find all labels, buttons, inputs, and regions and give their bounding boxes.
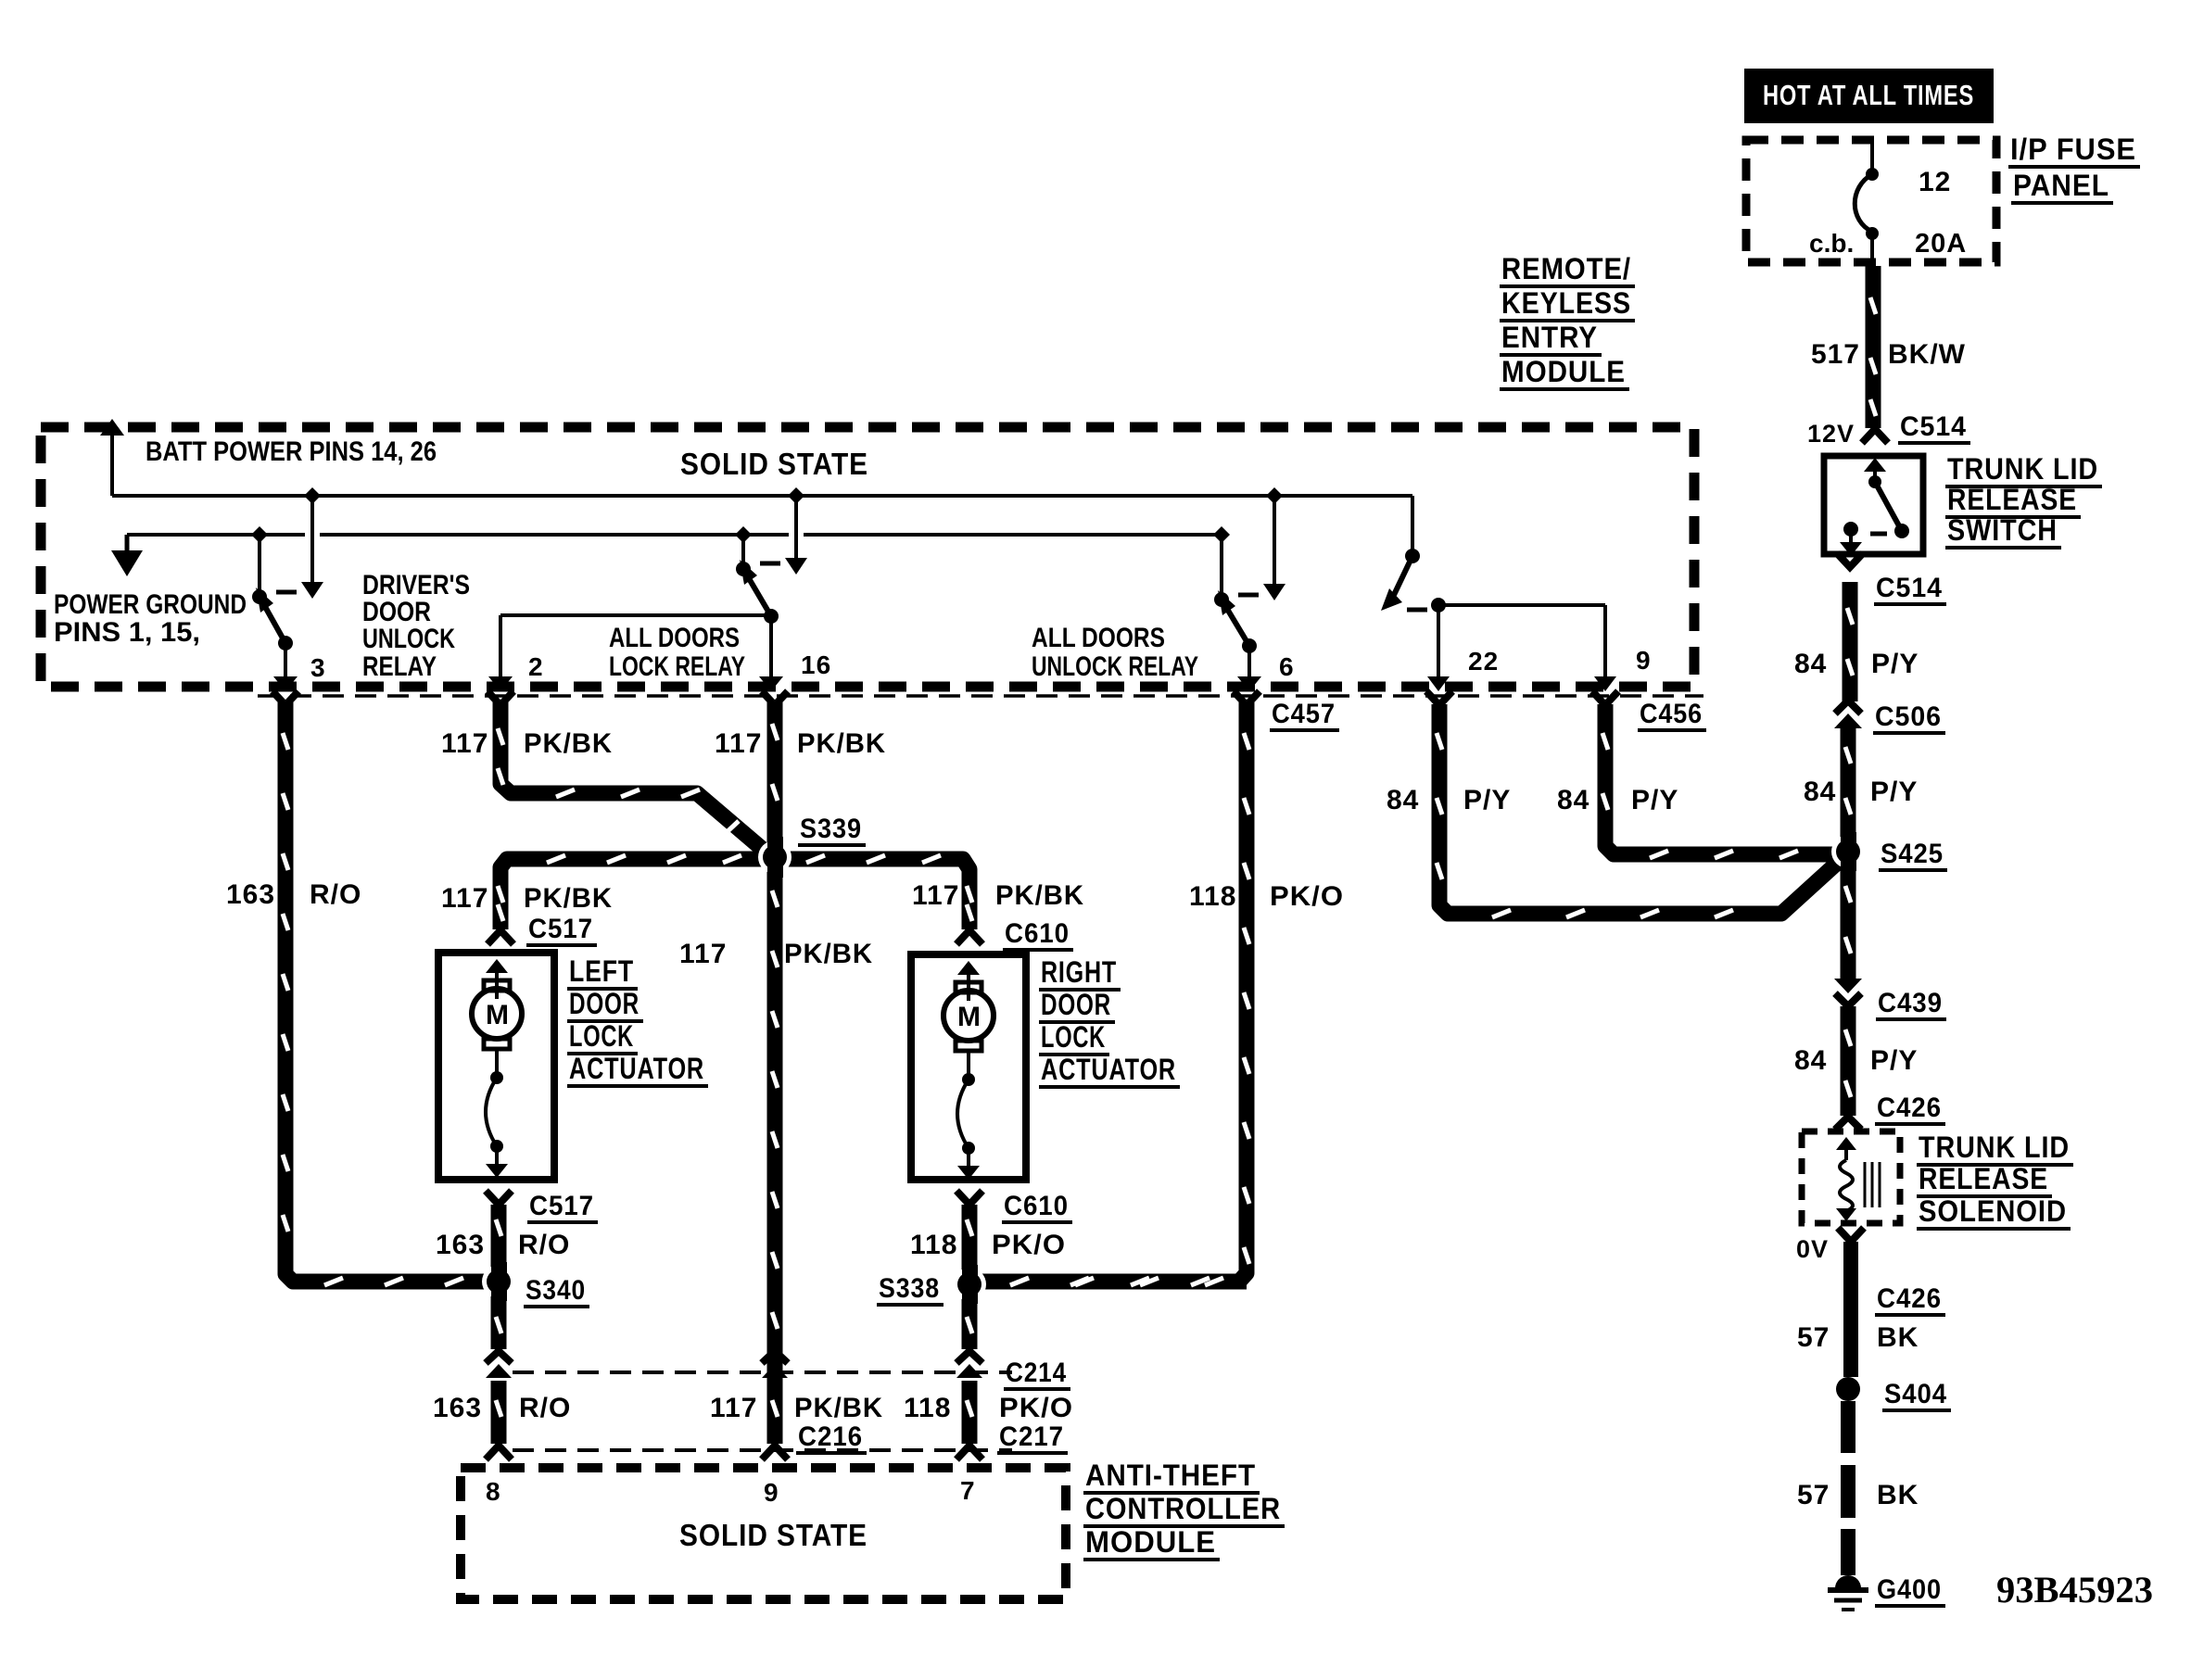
svg-text:117: 117 <box>715 728 762 759</box>
relay all-doors-lock: pivot dot <box>736 562 751 576</box>
label BK (1) <box>1877 1322 1919 1353</box>
wire 163 R/O from C517 to S340 <box>491 1205 507 1273</box>
label 118 (pin6 wire) <box>1189 881 1236 912</box>
svg-text:M: M <box>486 1000 509 1030</box>
pin 9 label <box>1636 646 1652 675</box>
svg-text:MODULE: MODULE <box>1085 1525 1216 1559</box>
svg-text:PK/BK: PK/BK <box>797 728 886 759</box>
wire pin 2 drop + arrow <box>488 615 513 691</box>
label S340 <box>524 1275 589 1307</box>
svg-text:M: M <box>957 1002 981 1032</box>
label CONTROLLER <box>1083 1492 1285 1526</box>
wire pin 9 drop + arrow <box>1594 605 1616 691</box>
label PK/BK (pin9 bottom) <box>794 1393 883 1423</box>
splice S425 <box>1831 832 1865 871</box>
label SWITCH <box>1945 513 2061 548</box>
wire contact to pin 22 arrow <box>1427 605 1450 691</box>
svg-text:C216: C216 <box>798 1421 863 1452</box>
label SOLID STATE (anti-theft) <box>679 1518 868 1552</box>
svg-text:LOCK: LOCK <box>1041 1020 1106 1054</box>
svg-text:SOLID STATE: SOLID STATE <box>679 1518 868 1552</box>
trunk switch: arm <box>1875 482 1902 531</box>
fuse element (circuit breaker arc) <box>1855 174 1872 232</box>
label 118 (S338 wire) <box>910 1230 957 1260</box>
label 163 (pin8 wire) <box>433 1393 482 1423</box>
label 117 (C610 wire) <box>912 880 959 911</box>
switch trunk-output: alternate-throw dash <box>1407 608 1427 613</box>
label RELAY (relay) <box>362 651 437 682</box>
label C217 <box>997 1421 1068 1453</box>
label DOOR (relay) <box>362 597 431 627</box>
svg-text:PK/O: PK/O <box>1270 881 1344 912</box>
label 117 (pin16 wire) <box>715 728 762 759</box>
svg-text:BK: BK <box>1877 1480 1919 1510</box>
label TRUNK LID (solenoid) <box>1917 1131 2073 1165</box>
svg-text:UNLOCK: UNLOCK <box>362 624 455 654</box>
label R/O (pin3 wire) <box>310 879 361 910</box>
relay driver-door-unlock: contact stub from line B <box>258 535 261 594</box>
svg-text:3: 3 <box>310 653 326 682</box>
wire end flare pin 8 <box>486 1446 512 1459</box>
label PK/BK (C610 wire) <box>995 880 1084 911</box>
svg-text:118: 118 <box>904 1393 951 1423</box>
wire end flare pin 9 bottom <box>762 1446 788 1459</box>
svg-text:c.b.: c.b. <box>1809 229 1854 258</box>
label RELEASE (switch) <box>1945 483 2081 517</box>
svg-text:117: 117 <box>441 883 488 914</box>
wire power ground feed (line B) segment 1 <box>127 533 305 537</box>
svg-text:PK/O: PK/O <box>999 1393 1073 1423</box>
svg-text:C426: C426 <box>1877 1093 1942 1123</box>
label PANEL <box>2011 169 2113 203</box>
hatch marks (wire color stripes) <box>283 297 1876 1417</box>
svg-text:PK/BK: PK/BK <box>794 1393 883 1423</box>
junction dot line B x1318 <box>1213 526 1230 543</box>
connector C439 <box>1834 979 1862 1006</box>
svg-text:RELEASE: RELEASE <box>1919 1162 2048 1195</box>
svg-text:517: 517 <box>1811 339 1860 370</box>
relay all-doors-unlock: alternate-throw dash <box>1238 593 1259 598</box>
fuse panel box I/P FUSE PANEL (dashed border) <box>1746 140 1996 262</box>
svg-text:57: 57 <box>1797 1480 1830 1510</box>
wire batt power arrow up <box>100 419 124 496</box>
label DOOR (left act) <box>567 987 643 1021</box>
right actuator motor symbol <box>944 961 994 1180</box>
label PK/BK (C517 wire) <box>524 883 613 914</box>
label 84 (pin9 wire) <box>1557 785 1589 815</box>
wire power ground corner + arrow down <box>111 535 143 576</box>
label PK/O (pin7 wire) <box>999 1393 1073 1423</box>
switch trunk-output: arm <box>1394 556 1412 595</box>
label 57 (2) <box>1797 1480 1830 1510</box>
label RELEASE (solenoid) <box>1917 1162 2052 1196</box>
label PK/BK (middle wire) <box>784 939 873 969</box>
junction dot line B x802 <box>735 526 752 543</box>
svg-text:REMOTE/: REMOTE/ <box>1501 252 1631 285</box>
svg-text:PK/O: PK/O <box>992 1230 1066 1260</box>
svg-text:20A: 20A <box>1915 229 1967 259</box>
wire 118 PK/O from pin 6 to S338 <box>980 702 1247 1282</box>
svg-text:ACTUATOR: ACTUATOR <box>569 1052 704 1085</box>
label G400 <box>1875 1574 1945 1606</box>
relay driver-door-unlock: right contact arrowhead <box>301 582 323 599</box>
label 0V <box>1796 1235 1829 1263</box>
label C610 upper <box>1003 918 1073 950</box>
label R/O (S340 wire) <box>518 1230 570 1260</box>
label REMOTE/ <box>1500 252 1635 286</box>
relay all-doors-unlock: pivot dot <box>1214 592 1229 607</box>
svg-text:C506: C506 <box>1875 701 1942 732</box>
wire batt power feed (line A) <box>112 494 1412 498</box>
svg-text:9: 9 <box>764 1478 779 1507</box>
svg-text:84: 84 <box>1794 649 1827 679</box>
label S404 <box>1882 1379 1951 1410</box>
label 163 (pin3 wire) <box>226 879 275 910</box>
svg-text:P/Y: P/Y <box>1870 777 1918 807</box>
relay all-doors-unlock: arm <box>1222 600 1249 646</box>
solenoid: input arrow up <box>1836 1137 1856 1160</box>
wire 117 PK/BK from pin 2 to S339 <box>500 702 773 858</box>
label 12 <box>1919 167 1951 197</box>
svg-text:C217: C217 <box>999 1421 1064 1452</box>
svg-text:I/P FUSE: I/P FUSE <box>2010 133 2136 166</box>
relay all-doors-unlock: right contact stub from line A <box>1273 496 1276 586</box>
wire 163 R/O from S340 to C214 line <box>491 1290 507 1349</box>
junction dot line A x337 <box>304 487 321 504</box>
label C517 lower <box>527 1191 598 1222</box>
svg-text:RELEASE: RELEASE <box>1947 483 2077 516</box>
label 117 (C517 wire) <box>441 883 488 914</box>
junction dot line A x859 <box>788 487 804 504</box>
label 117 (pin9 bottom) <box>710 1393 757 1423</box>
switch trunk-output: pivot dot <box>1405 549 1420 563</box>
relay all-doors-unlock: contact stub from line B <box>1220 535 1223 597</box>
connector flare pin 6 <box>1234 691 1260 705</box>
label MODULE (anti-theft) <box>1083 1525 1220 1560</box>
wire 84 P/Y from pin 9 down/right to S425 <box>1605 704 1841 854</box>
label P/Y (pin9 wire) <box>1631 785 1678 815</box>
pin 3 label <box>310 653 326 682</box>
connector C610 lower <box>956 1191 982 1205</box>
svg-text:SWITCH: SWITCH <box>1947 513 2058 547</box>
svg-text:LOCK RELAY: LOCK RELAY <box>609 651 745 682</box>
label BK (2) <box>1877 1480 1919 1510</box>
svg-text:ALL DOORS: ALL DOORS <box>1032 623 1165 653</box>
wire relay output to pin 16 <box>759 616 783 691</box>
splice S338 <box>953 1265 986 1304</box>
svg-text:S404: S404 <box>1884 1379 1947 1409</box>
module box ANTI-THEFT CONTROLLER MODULE (dashed border) <box>461 1468 1066 1599</box>
fuse output stub <box>1870 234 1874 266</box>
svg-text:SOLID STATE: SOLID STATE <box>680 447 868 481</box>
label ALL DOORS (lock) <box>609 623 740 653</box>
svg-text:C439: C439 <box>1878 988 1943 1018</box>
label C457 <box>1270 699 1339 730</box>
label 20A <box>1915 229 1967 259</box>
svg-text:P/Y: P/Y <box>1871 649 1919 679</box>
trunk switch: input arrow up <box>1864 458 1886 482</box>
wire 84 P/Y C506 to S425 <box>1841 728 1856 841</box>
wire 118 PK/O from S338 to C214 line <box>962 1294 978 1349</box>
label C610 lower <box>1002 1191 1072 1222</box>
wire 84 P/Y C439 to C426 <box>1841 1006 1856 1116</box>
svg-text:8: 8 <box>486 1477 501 1506</box>
label LOCK RELAY <box>609 651 745 682</box>
connector pair C216 wire <box>762 1351 788 1378</box>
trunk lid release switch box <box>1824 456 1923 554</box>
label BK/W <box>1888 339 1966 370</box>
pin 7 label <box>960 1476 976 1505</box>
label 84 (pin22 wire) <box>1387 785 1419 815</box>
pin 16 label <box>801 651 831 679</box>
label ACTUATOR (right act) <box>1039 1053 1180 1087</box>
label 117 (middle wire) <box>679 939 727 969</box>
pin 2 label <box>528 652 544 681</box>
pin 6 label <box>1279 652 1295 681</box>
splice S340 <box>482 1262 515 1301</box>
svg-text:RELAY: RELAY <box>362 651 437 682</box>
label TRUNK LID (switch) <box>1945 452 2102 486</box>
svg-text:P/Y: P/Y <box>1463 785 1511 815</box>
svg-text:117: 117 <box>710 1393 757 1423</box>
label C517 upper <box>526 914 597 945</box>
relay all-doors-unlock: arm tip arrowhead <box>1218 590 1235 615</box>
wire 84 P/Y from pin 22 down/right to S425 <box>1439 704 1843 914</box>
connector flare pin 9 <box>1592 691 1618 705</box>
wire 163 R/O from pin 3 to S340 <box>285 702 488 1282</box>
label C216 <box>796 1421 867 1453</box>
pin 8 label <box>486 1477 501 1506</box>
connector C506 <box>1834 701 1862 728</box>
svg-text:PK/BK: PK/BK <box>524 883 613 914</box>
label 117 (pin2 wire) <box>441 728 488 759</box>
connector line C214 (thin dashed) <box>513 1371 1012 1374</box>
connector line C457/C456 (thin dashed) <box>258 694 1703 698</box>
label SOLID STATE (keyless) <box>680 447 868 481</box>
label C426 upper <box>1875 1093 1945 1124</box>
label ENTRY <box>1500 321 1602 355</box>
wire relay output to pin 3 <box>273 643 298 691</box>
label KEYLESS <box>1500 286 1635 321</box>
pin 9 label (anti-theft) <box>764 1478 779 1507</box>
label C439 <box>1876 988 1946 1019</box>
svg-text:R/O: R/O <box>310 879 361 910</box>
trunk switch: pivot dot <box>1868 475 1881 488</box>
svg-text:C610: C610 <box>1005 918 1070 949</box>
svg-text:UNLOCK RELAY: UNLOCK RELAY <box>1032 651 1198 682</box>
connector C514 lower flare <box>1837 553 1863 567</box>
label PINS 1, 15, <box>54 617 200 648</box>
label S339 <box>798 814 866 845</box>
label PK/O (pin6 wire) <box>1270 881 1344 912</box>
label 93B45923 <box>1996 1569 2153 1611</box>
wire 118 PK/O from C610 to S338 <box>962 1205 978 1275</box>
connector flare pin 2 <box>488 691 513 705</box>
relay all-doors-lock: alternate-throw dash <box>760 562 780 566</box>
label 12V <box>1807 420 1855 448</box>
label 57 (1) <box>1797 1322 1830 1353</box>
svg-text:84: 84 <box>1557 785 1589 815</box>
label LEFT <box>567 954 638 989</box>
splice S339 <box>758 837 792 878</box>
label C426 lower <box>1875 1283 1945 1315</box>
wire relay output branch to pin 2 <box>500 613 771 617</box>
svg-text:BK/W: BK/W <box>1888 339 1966 370</box>
svg-text:163: 163 <box>433 1393 482 1423</box>
label c.b. <box>1809 229 1854 258</box>
label 84 (3) <box>1794 1045 1827 1076</box>
solenoid: output arrow down <box>1836 1208 1856 1221</box>
wire power ground feed (line B) segment 2 <box>320 533 789 537</box>
label P/Y (pin22 wire) <box>1463 785 1511 815</box>
relay all-doors-lock: arm <box>743 569 771 616</box>
wire 117 PK/BK from S339 to C610 right actuator <box>775 859 969 929</box>
wire 57 BK S404 to G400 (dashed segments) <box>1841 1401 1855 1575</box>
wire 84 P/Y switch to C506 <box>1843 582 1858 701</box>
svg-text:R/O: R/O <box>518 1230 570 1260</box>
trunk switch: arm end dot <box>1894 524 1909 538</box>
switch trunk-output: contact dot <box>1431 598 1446 613</box>
svg-text:22: 22 <box>1468 647 1499 676</box>
svg-text:BK: BK <box>1877 1322 1919 1353</box>
svg-text:12V: 12V <box>1807 420 1855 448</box>
svg-text:93B45923: 93B45923 <box>1996 1569 2153 1611</box>
connector C514 upper flare <box>1862 429 1888 443</box>
svg-text:16: 16 <box>801 651 831 679</box>
svg-text:RIGHT: RIGHT <box>1041 955 1117 989</box>
connector flare pin 3 <box>272 691 298 705</box>
svg-text:P/Y: P/Y <box>1870 1045 1918 1076</box>
svg-text:S425: S425 <box>1881 839 1944 869</box>
solenoid coil <box>1840 1160 1853 1211</box>
label 517 <box>1811 339 1860 370</box>
relay driver-door-unlock: right contact stub from line A <box>310 496 314 584</box>
connector pair C214 line left wire <box>486 1351 512 1378</box>
label C514 upper <box>1898 411 1970 443</box>
svg-text:ANTI-THEFT: ANTI-THEFT <box>1085 1459 1256 1492</box>
label S425 <box>1879 839 1947 870</box>
wire 118 PK/O from C214 line to anti-theft pin 7 <box>962 1381 978 1444</box>
label C506 <box>1873 701 1945 733</box>
wire 163 R/O from C214 line to anti-theft pin 8 <box>491 1381 507 1444</box>
svg-text:P/Y: P/Y <box>1631 785 1678 815</box>
svg-text:ENTRY: ENTRY <box>1501 321 1598 354</box>
svg-text:C514: C514 <box>1876 573 1943 603</box>
left actuator motor symbol <box>472 959 522 1178</box>
label SOLENOID <box>1917 1194 2071 1229</box>
svg-text:PANEL: PANEL <box>2013 169 2109 202</box>
label 84 (2) <box>1804 777 1836 807</box>
svg-text:84: 84 <box>1387 785 1419 815</box>
relay all-doors-lock: right contact arrowhead <box>785 558 807 575</box>
label BATT POWER PINS 14, 26 <box>146 436 437 467</box>
relay all-doors-unlock: arm output dot <box>1242 638 1257 653</box>
junction dot line B x280 <box>251 526 268 543</box>
fuse top dot <box>1866 168 1879 181</box>
svg-text:118: 118 <box>1189 881 1236 912</box>
connector C517 lower <box>486 1191 512 1205</box>
label P/Y (2) <box>1870 777 1918 807</box>
wire 118 PK/O from S338 right to pin-6 drop <box>980 1274 1247 1290</box>
svg-text:163: 163 <box>226 879 275 910</box>
label C514 lower <box>1874 573 1946 604</box>
label S338 <box>877 1273 944 1305</box>
left door lock actuator box <box>438 953 554 1180</box>
svg-text:SOLENOID: SOLENOID <box>1919 1194 2067 1228</box>
svg-text:117: 117 <box>441 728 488 759</box>
solenoid core bars <box>1865 1162 1880 1207</box>
relay all-doors-lock: right contact stub from line A <box>794 496 798 560</box>
label MODULE (keyless) <box>1500 355 1629 389</box>
label LOCK (left act) <box>567 1019 638 1054</box>
svg-text:S338: S338 <box>879 1273 940 1304</box>
fuse feed stub <box>1870 140 1874 170</box>
label R/O (pin8 wire) <box>519 1393 571 1423</box>
svg-text:PINS 1, 15,: PINS 1, 15, <box>54 617 200 648</box>
svg-text:PK/BK: PK/BK <box>524 728 613 759</box>
svg-text:2: 2 <box>528 652 544 681</box>
relay driver-door-unlock: arm tip arrowhead <box>256 587 273 613</box>
svg-text:CONTROLLER: CONTROLLER <box>1085 1492 1281 1525</box>
label DRIVER'S <box>362 570 470 600</box>
label 163 (S340 wire) <box>436 1230 485 1260</box>
svg-text:POWER GROUND: POWER GROUND <box>54 589 247 620</box>
label ANTI-THEFT <box>1083 1459 1260 1493</box>
svg-text:PK/BK: PK/BK <box>995 880 1084 911</box>
label PK/BK (pin16 wire) <box>797 728 886 759</box>
label P/Y (1) <box>1871 649 1919 679</box>
connector flare pin 16 <box>762 691 788 705</box>
label C456 <box>1638 699 1706 730</box>
relay all-doors-lock: arm output dot <box>764 609 779 624</box>
connector line C216/C217 (thin dashed) <box>513 1448 1012 1452</box>
fuse bottom dot <box>1866 227 1879 240</box>
svg-text:57: 57 <box>1797 1322 1830 1353</box>
svg-text:84: 84 <box>1804 777 1836 807</box>
svg-text:163: 163 <box>436 1230 485 1260</box>
svg-text:C426: C426 <box>1877 1283 1942 1314</box>
label 118 (pin7 wire) <box>904 1393 951 1423</box>
connector C517 upper <box>488 930 513 944</box>
svg-text:0V: 0V <box>1796 1235 1829 1263</box>
svg-text:117: 117 <box>679 939 727 969</box>
wire 517 BK/W fuse to C514 <box>1866 266 1881 428</box>
label 84 (1) <box>1794 649 1827 679</box>
svg-text:C610: C610 <box>1004 1191 1069 1221</box>
trunk switch: output arrow down <box>1840 529 1862 556</box>
svg-text:LOCK: LOCK <box>569 1019 634 1053</box>
banner HOT AT ALL TIMES <box>1744 69 1994 123</box>
svg-text:C514: C514 <box>1900 411 1967 442</box>
splice S404 <box>1836 1377 1860 1401</box>
label PK/BK (pin2 wire) <box>524 728 613 759</box>
svg-text:S339: S339 <box>800 814 862 844</box>
svg-text:DOOR: DOOR <box>569 987 640 1020</box>
svg-text:ALL DOORS: ALL DOORS <box>609 623 740 653</box>
wire contact to pin 9 <box>1438 603 1605 607</box>
svg-text:C456: C456 <box>1640 699 1703 729</box>
ground G400 symbol <box>1828 1575 1868 1610</box>
relay all-doors-lock: arm tip arrowhead <box>740 560 757 585</box>
label RIGHT <box>1039 955 1121 990</box>
connector C426 upper flare <box>1835 1117 1861 1130</box>
svg-text:DOOR: DOOR <box>1041 988 1111 1021</box>
svg-text:BATT POWER PINS 14, 26: BATT POWER PINS 14, 26 <box>146 436 437 467</box>
label P/Y (3) <box>1870 1045 1918 1076</box>
label DOOR (right act) <box>1039 988 1115 1022</box>
svg-text:HOT AT ALL TIMES: HOT AT ALL TIMES <box>1763 79 1974 111</box>
connector C610 upper <box>956 930 982 944</box>
